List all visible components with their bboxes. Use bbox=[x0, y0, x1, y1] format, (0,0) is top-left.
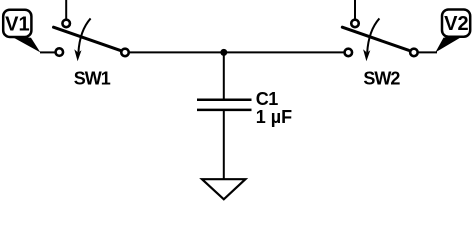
svg-text:V2: V2 bbox=[444, 13, 468, 35]
svg-text:SW1: SW1 bbox=[74, 69, 111, 89]
svg-text:1 µF: 1 µF bbox=[256, 107, 292, 127]
svg-text:C1: C1 bbox=[256, 89, 278, 109]
svg-text:V1: V1 bbox=[5, 14, 29, 36]
svg-text:SW2: SW2 bbox=[363, 69, 400, 89]
